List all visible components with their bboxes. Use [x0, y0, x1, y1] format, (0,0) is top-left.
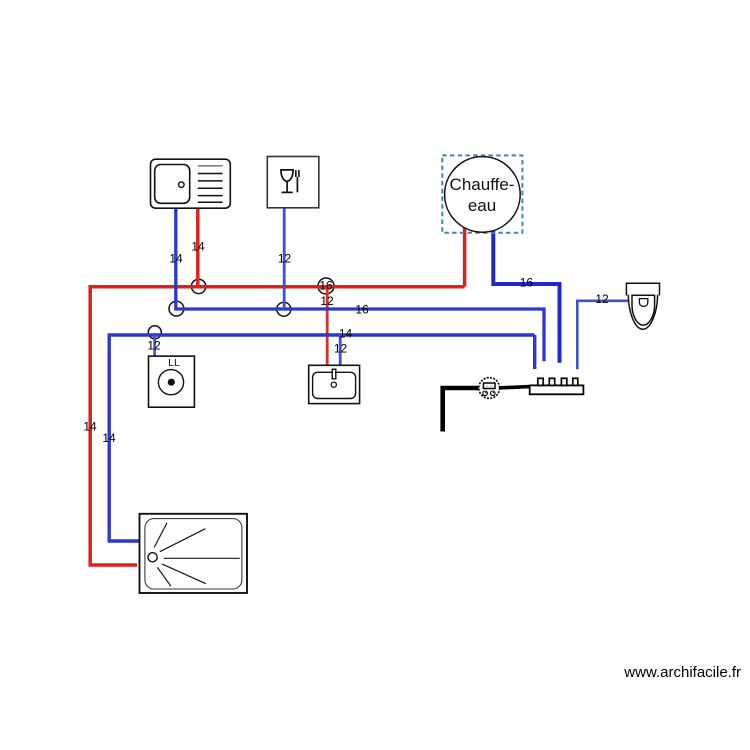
- svg-text:12: 12: [320, 294, 334, 308]
- svg-text:eau: eau: [468, 196, 496, 215]
- svg-text:12: 12: [595, 292, 609, 306]
- svg-text:LL: LL: [168, 357, 180, 369]
- svg-text:16: 16: [355, 303, 369, 317]
- svg-text:16: 16: [319, 278, 333, 292]
- svg-text:www.archifacile.fr: www.archifacile.fr: [623, 664, 741, 681]
- svg-text:12: 12: [147, 339, 161, 353]
- svg-text:14: 14: [169, 252, 183, 266]
- svg-text:16: 16: [520, 275, 534, 289]
- svg-text:12: 12: [334, 342, 348, 356]
- svg-text:14: 14: [102, 431, 116, 445]
- svg-text:14: 14: [191, 240, 205, 254]
- svg-text:Chauffe-: Chauffe-: [450, 175, 515, 194]
- svg-text:12: 12: [278, 252, 292, 266]
- svg-text:14: 14: [83, 419, 97, 433]
- svg-text:14: 14: [339, 327, 353, 341]
